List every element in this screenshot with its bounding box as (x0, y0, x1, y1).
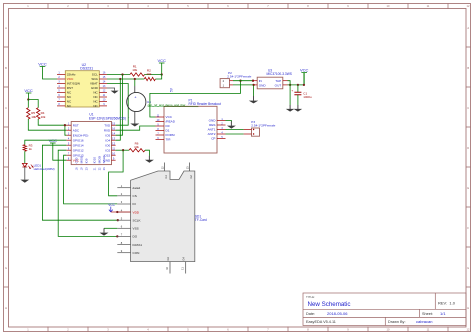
svg-text:Sheet:: Sheet: (422, 312, 433, 316)
svg-text:EasyEDA V5.4.11: EasyEDA V5.4.11 (306, 320, 336, 324)
svg-text:OUT: OUT (275, 84, 282, 88)
svg-text:2.54-1*2PFemale: 2.54-1*2PFemale (251, 123, 275, 127)
svg-text:GND: GND (91, 86, 99, 90)
svg-text:LED-Red(3MM): LED-Red(3MM) (34, 167, 55, 171)
svg-text:A: A (467, 26, 469, 30)
wire ESP VCC (53, 143, 67, 160)
resistor R6 10k (IO2 pull-down) (116, 141, 150, 155)
capacitor C1 1000u (291, 85, 312, 105)
svg-text:DS3231: DS3231 (80, 67, 93, 71)
svg-text:ADC: ADC (73, 128, 80, 132)
svg-text:SCLK: SCLK (133, 218, 142, 222)
voltage regulator U3 MIC37100-3.3WS (253, 69, 292, 89)
wire IO2 to TF CS (109, 150, 124, 196)
ground (RFID) (227, 121, 236, 128)
ground (TF VSS) (100, 228, 109, 235)
svg-text:TIR: TIR (166, 138, 172, 142)
power flag VCC (TF card VDD) (108, 203, 130, 213)
svg-text:VDD: VDD (133, 210, 140, 214)
svg-text:IO10: IO10 (92, 157, 96, 164)
svg-text:New Schematic: New Schematic (308, 301, 351, 308)
svg-text:TITLE:: TITLE: (306, 295, 315, 299)
svg-text:MISO: MISO (79, 155, 83, 163)
antenna header P3 (244, 120, 276, 136)
svg-text:CS: CS (133, 194, 137, 198)
wire RST pull-up (38, 119, 66, 125)
wire EN tie to RST (64, 124, 67, 135)
svg-text:10k: 10k (134, 145, 139, 149)
node SCL junction (121, 73, 123, 75)
svg-text:DO: DO (133, 235, 138, 239)
svg-text:G: G (5, 266, 7, 270)
svg-text:ESP-12F(ESP8266MOD): ESP-12F(ESP8266MOD) (89, 116, 126, 120)
svg-text:G2: G2 (189, 175, 193, 179)
input power header P2 (220, 71, 252, 88)
svg-text:10k: 10k (41, 115, 46, 119)
ground (LED1) (20, 180, 29, 183)
svg-text:D: D (467, 146, 469, 150)
svg-text:EN(CH-PD): EN(CH-PD) (73, 133, 89, 137)
ground (buzzer) (130, 124, 139, 127)
wire GPIO12 to TF DO (58, 150, 118, 237)
svg-text:10k: 10k (132, 68, 137, 72)
svg-text:GND: GND (209, 119, 217, 123)
svg-text:NC: NC (93, 95, 98, 99)
svg-text:NC: NC (93, 100, 98, 104)
resistor R5 10k (27, 100, 37, 120)
svg-text:NC: NC (67, 95, 72, 99)
svg-text:IO5: IO5 (105, 133, 110, 137)
svg-text:10k: 10k (146, 72, 151, 76)
resistor R1 10k (SCL pull-up) (107, 65, 162, 77)
svg-text:E: E (467, 186, 469, 190)
svg-text:data2: data2 (133, 186, 141, 190)
wire GPIO16 to R3 (25, 140, 67, 145)
wire GPIO14 to TF SCLK (42, 145, 119, 221)
svg-text:TAP: TAP (275, 79, 281, 83)
svg-text:G3: G3 (166, 257, 170, 261)
svg-text:DATA1: DATA1 (133, 243, 143, 247)
svg-text:VCC: VCC (157, 58, 166, 63)
svg-text:VCC: VCC (108, 203, 115, 207)
svg-text:1000u: 1000u (303, 95, 312, 99)
svg-text:VCC: VCC (24, 88, 33, 93)
wire GPIO13 to TF DI (64, 155, 118, 204)
svg-text:1/1: 1/1 (440, 311, 446, 316)
svg-text:IO9: IO9 (84, 158, 88, 163)
micro SD card SD1 TF-Card (117, 163, 207, 274)
svg-text:C: C (5, 106, 7, 110)
RFID reader breakout P1 (156, 99, 226, 153)
svg-text:10k: 10k (31, 115, 36, 119)
svg-text:GPIO12: GPIO12 (73, 148, 84, 152)
wire U3 TAP tie (288, 81, 291, 106)
svg-text:VCC: VCC (67, 77, 74, 81)
svg-text:IO0: IO0 (105, 143, 110, 147)
svg-text:NC: NC (67, 91, 72, 95)
wire RFID D0 to ESP RXD (116, 126, 156, 130)
WiFi module U1 ESP-12F(ESP8266MOD) (66, 113, 126, 171)
svg-text:VCC: VCC (300, 67, 309, 72)
svg-text:RXD: RXD (104, 128, 111, 132)
svg-text:G4: G4 (182, 257, 186, 261)
svg-text:CON: CON (133, 251, 140, 255)
svg-text:1k: 1k (29, 147, 33, 151)
svg-text:RST: RST (73, 123, 79, 127)
resistor R4 10k (28, 100, 46, 120)
wire VSS to ground (104, 227, 117, 229)
svg-text:H: H (467, 306, 469, 310)
svg-text:INT/SQW: INT/SQW (67, 82, 80, 86)
svg-text:D0: D0 (166, 124, 170, 128)
svg-text:con_ref_and_demo_and_ther: con_ref_and_demo_and_ther (148, 103, 186, 107)
power flag VCC (DS3231 supply) (38, 61, 57, 79)
svg-text:GND: GND (259, 84, 267, 88)
svg-text:RES: RES (209, 123, 215, 127)
svg-text:NC: NC (67, 100, 72, 104)
svg-text:E: E (5, 186, 7, 190)
svg-text:/READ: /READ (166, 120, 176, 124)
svg-text:GPIO14: GPIO14 (73, 143, 84, 147)
wire RFID GND (226, 121, 232, 122)
svg-text:MIC37100-3.3WS: MIC37100-3.3WS (267, 72, 292, 76)
net name text (green) (148, 103, 199, 107)
power flag VCC (ESP8266 supply) (49, 138, 58, 143)
svg-text:32kHz: 32kHz (67, 73, 76, 77)
wire ANT2 to P3 (226, 133, 244, 135)
LED LED1 LED-Red(3MM) (22, 151, 54, 179)
svg-text:CP: CP (211, 137, 215, 141)
svg-text:SDA: SDA (91, 77, 98, 81)
svg-text:NC: NC (93, 104, 98, 108)
svg-text:H: H (5, 306, 7, 310)
power flag VCC (regulator output) (300, 67, 309, 85)
svg-text:D: D (5, 146, 7, 150)
svg-text:Drawn By:: Drawn By: (388, 320, 406, 324)
svg-text:Date:: Date: (306, 312, 315, 316)
ground (U3 output) (286, 105, 295, 112)
svg-text:TXD: TXD (104, 123, 111, 127)
svg-text:CS0: CS0 (74, 157, 78, 163)
resistor R2 10k (SDA pull-up) (107, 68, 162, 80)
wire DS3231 GND (107, 88, 115, 91)
svg-text:REV: 1.0: REV: 1.0 (438, 300, 456, 305)
wire ADC pull-up (28, 119, 66, 130)
svg-text:G1: G1 (164, 175, 168, 179)
svg-text:C: C (467, 106, 469, 110)
svg-text:ANT2: ANT2 (208, 132, 216, 136)
svg-text:RST: RST (67, 86, 73, 90)
svg-text:B: B (467, 66, 469, 70)
net label 5V (169, 87, 173, 92)
svg-text:NC: NC (67, 104, 72, 108)
buzzer U4 (127, 86, 152, 124)
svg-text:SCL: SCL (92, 73, 98, 77)
title block (303, 293, 466, 326)
power flag VCC (pull-up pair) (24, 88, 33, 101)
ground (R6) (145, 156, 154, 163)
ground (DS3231) (111, 91, 119, 94)
ground (C1) (294, 105, 303, 112)
svg-text:SCLK: SCLK (102, 156, 106, 164)
svg-text:IO2: IO2 (105, 148, 110, 152)
wire U3 OUT to VCC (288, 73, 306, 86)
svg-text:+: + (291, 88, 293, 92)
svg-text:IN: IN (259, 79, 262, 83)
svg-text:TF-Card: TF-Card (195, 218, 207, 222)
svg-text:ANT1: ANT1 (208, 128, 216, 132)
svg-text:cabracan: cabracan (416, 319, 432, 324)
wire GND down (253, 85, 255, 96)
svg-text:B: B (5, 66, 7, 70)
svg-text:2.54-1*2PFemale: 2.54-1*2PFemale (227, 75, 251, 79)
svg-text:RFID Reader Breakout: RFID Reader Breakout (189, 102, 222, 106)
svg-text:NC: NC (93, 91, 98, 95)
svg-text:IO4: IO4 (105, 138, 110, 142)
svg-text:D1: D1 (166, 129, 170, 133)
svg-text:VSS: VSS (133, 227, 139, 231)
wire SDA to ESP IO4 (116, 79, 121, 140)
wire buzzer plus to SDA rail (134, 78, 136, 86)
svg-text:A: A (5, 26, 7, 30)
wire INT/SQW to ESP TXD (107, 84, 128, 126)
svg-text:VBAT: VBAT (90, 82, 98, 86)
svg-text:G: G (467, 266, 469, 270)
power flag VCC (I2C pull-ups) (157, 58, 166, 76)
wire P2 pin2 to U3 GND (233, 84, 255, 86)
wire P2 pin1 to U3 IN (233, 80, 254, 82)
svg-text:FORM: FORM (166, 133, 176, 137)
RTC module U2 DS3231 (57, 63, 107, 108)
wire ANT1 to P3 (226, 129, 244, 131)
wire SCL to ESP IO5 (116, 75, 123, 136)
svg-text:GPIO16: GPIO16 (73, 138, 84, 142)
svg-text:VCC: VCC (166, 115, 173, 119)
svg-text:DI: DI (133, 202, 136, 206)
resistor R3 1k (23, 144, 33, 152)
wire raw supply rail (150, 80, 242, 117)
node SDA junction (119, 78, 121, 80)
ground (P2/U3) (249, 96, 258, 103)
svg-text:2018-05-06: 2018-05-06 (327, 311, 348, 316)
svg-text:MOSI: MOSI (97, 156, 101, 164)
svg-text:VCC: VCC (38, 61, 47, 66)
